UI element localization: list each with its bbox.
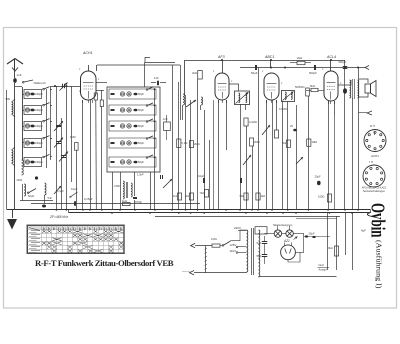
wire antenna bus bbox=[14, 83, 16, 210]
oscillator coil Lo2 bbox=[201, 97, 203, 105]
wire ABC1 pins bbox=[266, 100, 268, 210]
svg-text:240pF: 240pF bbox=[35, 124, 43, 128]
svg-text:1kΩ: 1kΩ bbox=[173, 194, 178, 198]
svg-text:Netz: Netz bbox=[319, 263, 325, 267]
lamp tap arrow bbox=[294, 237, 298, 240]
oscillator switch row 5 bbox=[146, 157, 148, 159]
svg-text:10µF: 10µF bbox=[198, 174, 205, 178]
switch wave-change top bbox=[24, 80, 33, 82]
resistor bottom AF3 a bbox=[244, 193, 248, 200]
tube ABC1 bbox=[264, 73, 279, 100]
wave switch contact row 1 bbox=[43, 88, 45, 90]
resistor 3k psu bbox=[334, 246, 338, 256]
mains cord vertical bbox=[205, 246, 207, 273]
resistor bottom 3 bbox=[204, 190, 208, 198]
capacitor 25p blob bbox=[293, 129, 297, 132]
padder capacitor bottom of bank bbox=[133, 197, 137, 199]
antenna coil bank rail bbox=[22, 87, 24, 160]
svg-text:100Ω: 100Ω bbox=[318, 195, 324, 199]
capacitor small x161 bbox=[160, 175, 162, 179]
svg-text:Oybin: Oybin bbox=[367, 203, 389, 238]
capacitor C mid2 bbox=[240, 178, 242, 183]
wire tuning rail x71 bbox=[71, 86, 73, 182]
capacitor 1nF bottom-left bbox=[74, 201, 76, 206]
wire speaker return bbox=[344, 60, 346, 68]
wave switch contact row 5 bbox=[43, 156, 45, 158]
wire tuning rail x56 bbox=[56, 86, 58, 210]
svg-text:2kΩ: 2kΩ bbox=[297, 56, 302, 60]
wire lamp circuit bbox=[265, 233, 275, 235]
svg-text:4µF: 4µF bbox=[361, 229, 366, 233]
tube ACH1 bbox=[81, 71, 97, 100]
wave switch contact row 3 bbox=[43, 120, 45, 122]
oscillator switch row 3 bbox=[146, 121, 148, 123]
mains terminal top bbox=[191, 243, 196, 247]
oscillator coil row 1 bbox=[109, 89, 156, 99]
svg-text:50µF: 50µF bbox=[28, 194, 35, 198]
wire AF3 anode to IFT1 bbox=[229, 84, 239, 91]
band switch table bbox=[28, 226, 124, 254]
svg-text:Anzapf: Anzapf bbox=[319, 268, 327, 272]
voltage selector plate bbox=[255, 227, 267, 234]
svg-text:500pF: 500pF bbox=[309, 71, 317, 75]
svg-text:R-F-T Funkwerk Zittau-Olbersdo: R-F-T Funkwerk Zittau-Olbersdorf VEB bbox=[35, 258, 174, 268]
svg-text:2MΩ: 2MΩ bbox=[194, 142, 200, 146]
svg-text:5µF: 5µF bbox=[257, 241, 262, 245]
capacitor 25uF psu bbox=[305, 235, 308, 237]
wire heater link y219 bbox=[296, 218, 337, 220]
svg-text:20µF: 20µF bbox=[315, 175, 321, 179]
wire top bus AVC bbox=[185, 60, 345, 62]
wire bottom bus 1 bbox=[7, 209, 371, 211]
wire rail x172 bbox=[172, 65, 174, 210]
wire right rails bbox=[352, 98, 354, 210]
wire ACH1 cathode drops bbox=[82, 100, 84, 210]
wire AZ1 output bbox=[295, 252, 304, 254]
svg-text:1,5nF: 1,5nF bbox=[137, 173, 144, 177]
svg-text:ZF=468 kHz: ZF=468 kHz bbox=[49, 215, 68, 219]
svg-text:220V: 220V bbox=[234, 226, 241, 230]
resistor 2M mid bbox=[189, 141, 193, 148]
svg-text:Sockelschaltungen: Sockelschaltungen bbox=[363, 189, 386, 193]
svg-text:5µF: 5µF bbox=[257, 254, 262, 258]
wire rails ABC1 section bbox=[282, 102, 284, 210]
svg-text:500µF: 500µF bbox=[339, 60, 347, 64]
antenna band filter row 4 bbox=[24, 139, 42, 148]
pilot lamp 2 bbox=[286, 230, 293, 237]
svg-text:1MΩ: 1MΩ bbox=[312, 140, 318, 144]
svg-text:240pF: 240pF bbox=[35, 141, 43, 145]
svg-text:25µF: 25µF bbox=[309, 232, 315, 236]
resistor 0.1M mid bbox=[177, 139, 181, 148]
wire ACH1 grid cap stub bbox=[88, 65, 90, 71]
wire ACL4 grid stub bbox=[330, 60, 332, 71]
table row labels bbox=[31, 230, 40, 232]
svg-text:ACH1: ACH1 bbox=[82, 51, 93, 55]
power transformer secondary bbox=[259, 230, 260, 277]
capacitor 5uF b bbox=[262, 254, 268, 256]
antenna band filter row 2 bbox=[24, 106, 42, 115]
svg-text:50k: 50k bbox=[240, 194, 245, 198]
potentiometer AF3 bbox=[243, 155, 251, 165]
resistor 50k right-mid bbox=[286, 140, 290, 147]
resistor 1M right-mid bbox=[307, 139, 311, 146]
socket pinout AF3 ABC1 ACL4 AZ1 bbox=[363, 165, 385, 187]
tube pin stubs ABC1 bbox=[266, 100, 268, 103]
wire bus right drop bbox=[370, 210, 372, 213]
wire ACL4 pin drop bbox=[334, 115, 336, 210]
resistor bottom 2 bbox=[189, 193, 193, 200]
svg-text:50pF: 50pF bbox=[138, 92, 144, 96]
wave switch contact row 4 bbox=[43, 137, 45, 139]
svg-text:1nF: 1nF bbox=[163, 117, 168, 121]
svg-text:4700: 4700 bbox=[114, 184, 120, 188]
svg-text:0,1MΩ: 0,1MΩ bbox=[249, 120, 257, 124]
svg-text:0,1M: 0,1M bbox=[182, 141, 188, 145]
svg-text:1kΩ: 1kΩ bbox=[122, 199, 127, 203]
phono arrow bbox=[367, 111, 372, 115]
wire left bus to ground bbox=[7, 209, 15, 211]
wire lamp stubs up bbox=[277, 226, 279, 230]
svg-text:AF3: AF3 bbox=[217, 55, 225, 59]
resistor 1k bottom-left bbox=[123, 202, 131, 205]
svg-text:0,25µF: 0,25µF bbox=[84, 197, 93, 201]
wire tuning rail x76 bbox=[76, 150, 78, 210]
coil L8 x44 bbox=[45, 183, 47, 195]
capacitor 500pF bbox=[314, 65, 316, 70]
resistor bottom AF3 b bbox=[256, 193, 260, 200]
svg-text:240pF: 240pF bbox=[35, 160, 43, 164]
table header shading bbox=[28, 226, 124, 230]
wire rail x155 bbox=[154, 88, 156, 210]
wire osc bank drops bbox=[112, 172, 114, 210]
wire psu bottom bbox=[259, 276, 337, 278]
wire switch to primary bbox=[240, 230, 247, 241]
junction blob left bottom bbox=[35, 176, 38, 179]
oscillator switch row 2 bbox=[146, 105, 148, 107]
resistor ACL4 grid stopper bbox=[311, 88, 318, 91]
resistor bottom 1 bbox=[177, 193, 181, 200]
svg-text:50pF: 50pF bbox=[138, 108, 144, 112]
svg-text:270pF: 270pF bbox=[135, 200, 143, 204]
wire IFT1 secondary down bbox=[245, 105, 247, 111]
resistor ACH1 cathode bbox=[94, 93, 97, 100]
svg-text:Wellensch.: Wellensch. bbox=[34, 81, 47, 85]
table X marks bbox=[42, 230, 123, 253]
wire osc coil links bbox=[182, 105, 184, 120]
variable capacitor C-tune 2 bbox=[56, 141, 61, 143]
resistor det load bbox=[306, 88, 310, 96]
resistor 1M gang bbox=[75, 143, 79, 151]
variable capacitor C-tune 1 bbox=[56, 125, 61, 127]
wire B+ to right bbox=[304, 236, 330, 238]
svg-text:240pF: 240pF bbox=[35, 108, 43, 112]
antenna A1 bbox=[7, 59, 23, 65]
power transformer core bbox=[251, 228, 253, 275]
power transformer primary bbox=[247, 230, 248, 272]
wire rail x179 bbox=[178, 82, 180, 210]
socket pinout ACH1 bbox=[364, 130, 386, 152]
wire top bus corner left bbox=[184, 60, 186, 95]
wire tuning rail x61 bbox=[61, 118, 63, 210]
wire antenna down-lead bbox=[14, 71, 16, 78]
wire rail x186 bbox=[185, 95, 187, 210]
IF transformer 2 bbox=[282, 91, 295, 102]
wire plate to output transformer bbox=[338, 80, 351, 85]
resistor ACH1 screen bbox=[100, 100, 103, 107]
capacitor 1nF mid bbox=[164, 122, 171, 131]
tube ACL4 bbox=[324, 71, 338, 101]
potentiometer volume bbox=[163, 179, 172, 188]
wire bottom bus 3 bbox=[155, 216, 340, 218]
wire input node bbox=[15, 86, 22, 88]
svg-text:3kΩ: 3kΩ bbox=[328, 246, 333, 250]
wire ACH1 anode bbox=[96, 82, 107, 84]
wire AZ1 bottom loop bbox=[288, 252, 300, 262]
svg-text:2200: 2200 bbox=[17, 178, 23, 182]
svg-text:50pF: 50pF bbox=[138, 160, 144, 164]
wire nested loop left bbox=[145, 58, 150, 63]
antenna band filter row 1 bbox=[24, 90, 42, 99]
svg-text:1MΩ: 1MΩ bbox=[70, 135, 76, 139]
variable capacitor C-tune 3 bbox=[61, 155, 66, 157]
svg-text:ACL4: ACL4 bbox=[326, 55, 336, 59]
svg-text:0,8A: 0,8A bbox=[211, 237, 217, 241]
svg-text:5nF: 5nF bbox=[48, 196, 53, 200]
wire bottom-left links bbox=[20, 200, 53, 202]
wire screen bus over ACH1 bbox=[97, 64, 180, 66]
table first column label marks bbox=[29, 228, 40, 231]
svg-text:5kΩ: 5kΩ bbox=[310, 84, 315, 88]
resistor ABC1 a bbox=[274, 130, 278, 138]
pickup arrow end of line bbox=[365, 66, 369, 70]
IF transformer 1 bbox=[235, 91, 250, 105]
oscillator switch row 4 bbox=[146, 138, 148, 140]
trimmer pickup arrow top bbox=[62, 84, 64, 89]
wire grid line to ACH1 bbox=[51, 86, 81, 88]
oscillator trimmer arrow bbox=[186, 100, 196, 107]
wire left rail x7 bbox=[6, 90, 8, 210]
wire tuning rail x66 bbox=[66, 86, 68, 210]
antenna band filter row 5 bbox=[24, 158, 42, 167]
coil L6 2200 vertical bbox=[22, 160, 24, 175]
switch tone bottom-left bbox=[29, 189, 36, 193]
svg-text:1nF: 1nF bbox=[17, 73, 22, 77]
wire detector line bbox=[240, 67, 365, 69]
oscillator output transformer bbox=[123, 181, 124, 199]
svg-text:125V: 125V bbox=[230, 243, 237, 247]
wire psu vertical links bbox=[264, 236, 266, 242]
wire rail x197 bbox=[197, 79, 199, 210]
oscillator switch row 1 bbox=[146, 89, 148, 91]
rectifier tube AZ1 bbox=[281, 245, 296, 260]
ground symbol bbox=[12, 210, 14, 218]
wire tuning rail x51 bbox=[50, 86, 52, 160]
svg-text:7kΩ: 7kΩ bbox=[200, 191, 205, 195]
capacitor cathode blob bbox=[343, 88, 347, 94]
tube AF3 bbox=[215, 73, 229, 100]
svg-text:50µF: 50µF bbox=[251, 71, 258, 75]
capacitor blob 5nF bbox=[42, 205, 46, 208]
svg-text:r ⊓: r ⊓ bbox=[369, 160, 374, 164]
potentiometer ABC1 bbox=[262, 125, 270, 135]
wire AF3 grid cap stub bbox=[222, 60, 224, 73]
capacitor 5uF a bbox=[262, 241, 268, 243]
wire rail x209 bbox=[209, 140, 211, 210]
output transformer bbox=[350, 80, 351, 98]
coil L7 bottom left bbox=[24, 184, 26, 196]
wire rail x204 bbox=[204, 110, 206, 210]
pilot lamp 1 bbox=[274, 230, 281, 237]
wire rails AF3 section bbox=[240, 104, 242, 210]
wave switch contact row 2 bbox=[43, 104, 45, 106]
svg-text:2kΩ: 2kΩ bbox=[192, 71, 197, 75]
wire right psu rails bbox=[327, 213, 329, 270]
potentiometer right-mid bbox=[296, 157, 303, 164]
oscillator coil bank frame bbox=[107, 87, 160, 172]
svg-text:AZ1: AZ1 bbox=[283, 239, 290, 243]
wire mid bus y203 bbox=[31, 203, 200, 205]
tiny footnote bbox=[182, 271, 190, 273]
tube pin stubs ACH1 bbox=[82, 100, 84, 103]
coil L-ant 500 bbox=[12, 102, 14, 114]
svg-text:50pF: 50pF bbox=[138, 141, 144, 145]
oscillator coil row 2 bbox=[109, 105, 156, 115]
oscillator coil row 3 bbox=[109, 121, 156, 131]
svg-text:a ⊓: a ⊓ bbox=[370, 124, 376, 128]
wire AF3 pins bbox=[218, 100, 220, 210]
svg-text:50/5000: 50/5000 bbox=[295, 85, 305, 89]
svg-text:0,1µF: 0,1µF bbox=[57, 189, 64, 193]
resistor 100 ohm bbox=[327, 194, 331, 202]
loudspeaker LS bbox=[359, 79, 368, 83]
junction dots on buses bbox=[56, 209, 58, 211]
svg-text:10µF: 10µF bbox=[71, 187, 78, 191]
switch and cap x74 bbox=[71, 192, 78, 197]
wire rail x213 bbox=[213, 100, 215, 210]
capacitor 50uF coupling bbox=[255, 65, 257, 70]
svg-text:1nF: 1nF bbox=[154, 76, 159, 80]
mains terminal bottom bbox=[190, 271, 195, 275]
mains switch bbox=[220, 245, 222, 247]
tube pin stubs ACL4 bbox=[328, 101, 330, 104]
oscillator coil Lo1 bbox=[183, 94, 185, 105]
resistor AF3 bias bbox=[249, 138, 253, 146]
oscillator coil row 4 bbox=[109, 138, 156, 148]
capacitor 500uF cathode bbox=[343, 66, 348, 68]
svg-text:50k: 50k bbox=[282, 141, 287, 145]
wire bottom bus 2 bbox=[69, 212, 371, 214]
wire ACL4 pins bbox=[328, 101, 330, 210]
svg-text:110V: 110V bbox=[230, 249, 237, 253]
antenna band filter row 3 bbox=[24, 122, 42, 131]
resistor 2k detector bbox=[297, 61, 305, 64]
capacitor 10uF mid bbox=[203, 178, 205, 183]
resistor screen AF3 bbox=[244, 118, 248, 126]
table header tick marks bbox=[43, 227, 45, 230]
capacitor 20uF blob bbox=[317, 181, 321, 185]
svg-text:4kΩ: 4kΩ bbox=[185, 194, 190, 198]
svg-text:0,5MΩ: 0,5MΩ bbox=[279, 107, 287, 111]
potentiometer tone bbox=[54, 186, 61, 194]
svg-text:50pF: 50pF bbox=[138, 124, 144, 128]
svg-text:AF3,ABC1,ACL4,AZ1: AF3,ABC1,ACL4,AZ1 bbox=[362, 186, 387, 190]
tube pin stubs AF3 bbox=[218, 100, 220, 103]
wire rail x191 bbox=[190, 100, 192, 210]
coil L-ant lower bbox=[12, 150, 14, 163]
antenna bank right rail bbox=[46, 89, 48, 168]
fuse 0.8A bbox=[212, 244, 220, 247]
svg-text:ACH1: ACH1 bbox=[371, 154, 379, 158]
svg-text:(Ausführung I): (Ausführung I) bbox=[375, 240, 384, 289]
resistor 2k AF3 grid bbox=[198, 71, 203, 80]
svg-text:ABC1: ABC1 bbox=[264, 55, 274, 59]
wire ABC1 grid stub bbox=[270, 60, 272, 68]
oscillator coil row 5 bbox=[109, 157, 156, 167]
svg-text:1kΩ: 1kΩ bbox=[261, 194, 266, 198]
svg-text:240pF: 240pF bbox=[35, 92, 43, 96]
